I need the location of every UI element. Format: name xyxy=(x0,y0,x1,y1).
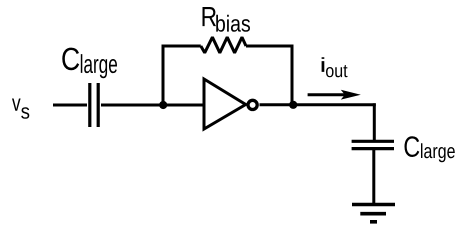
node A: input junction dot xyxy=(159,101,167,109)
node vs: source label v_s xyxy=(12,98,29,118)
wire: down to output capacitor xyxy=(373,103,376,140)
current arrow i_out xyxy=(308,90,361,100)
label C_large (output) xyxy=(404,136,454,162)
label R_bias xyxy=(203,7,250,32)
ground xyxy=(352,205,395,222)
capacitor C_large (output) xyxy=(352,141,394,148)
inverter U1 output bubble xyxy=(248,100,257,109)
wire: capacitor to ground xyxy=(372,150,375,204)
wire: feedback top left segment xyxy=(162,45,201,48)
resistor R_bias xyxy=(201,37,246,53)
inverter U1 (triangle) xyxy=(204,79,246,129)
wire: vs to C_large left xyxy=(53,104,87,107)
wire: feedback right vertical xyxy=(291,46,294,105)
capacitor C_large (input coupling) xyxy=(90,83,98,127)
label i_out xyxy=(322,57,348,77)
node out: output junction dot xyxy=(289,101,297,109)
wire: C_large to inverter input xyxy=(101,104,204,107)
wire: feedback left vertical xyxy=(162,46,165,105)
wire: feedback top right segment xyxy=(246,45,294,48)
label C_large (input) xyxy=(62,48,117,79)
wire: inverter output to right corner xyxy=(260,103,376,106)
